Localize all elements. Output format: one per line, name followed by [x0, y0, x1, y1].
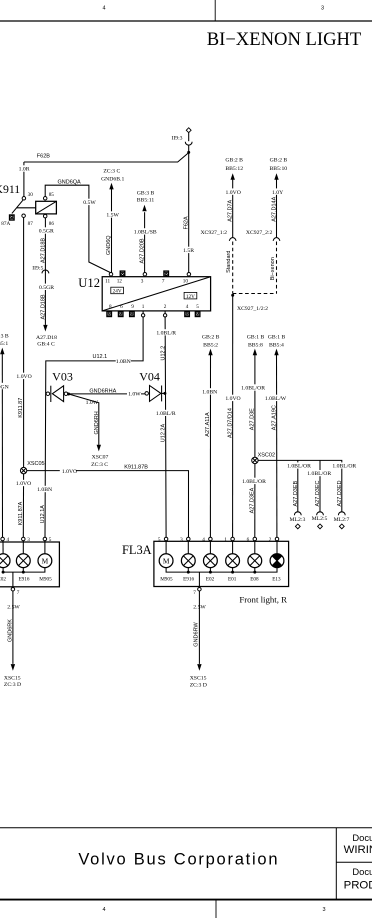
svg-text:2: 2	[269, 537, 272, 543]
pin 85	[43, 197, 47, 201]
wire U12.1 from U12:1	[45, 317, 143, 537]
svg-text:1.0W: 1.0W	[86, 400, 99, 406]
motor M905 right	[165, 541, 167, 554]
pin 6 stub	[118, 312, 123, 317]
svg-text:0.5GR: 0.5GR	[39, 285, 54, 291]
wire K911.87B to FL3A:3	[27, 471, 189, 538]
svg-text:1.0VO: 1.0VO	[62, 469, 77, 475]
svg-text:4: 4	[102, 6, 105, 12]
svg-text:GB:2 B: GB:2 B	[270, 158, 288, 164]
FL3 pin 7	[11, 587, 15, 591]
svg-text:ZC:3 C: ZC:3 C	[103, 168, 120, 174]
svg-text:GND6RK: GND6RK	[7, 619, 13, 642]
svg-text:F62A: F62A	[184, 216, 190, 229]
wire K911.87 down	[23, 217, 25, 467]
svg-text:87A: 87A	[1, 221, 10, 227]
svg-text:1.0VO: 1.0VO	[225, 396, 240, 402]
svg-text:12: 12	[117, 278, 123, 284]
svg-text:1.0BL/OR: 1.0BL/OR	[332, 464, 356, 470]
svg-text:K911.87A: K911.87A	[18, 501, 24, 525]
pin 87	[22, 214, 26, 218]
svg-text:GND6RHA: GND6RHA	[89, 388, 116, 394]
svg-text:GB:3 B: GB:3 B	[137, 191, 155, 197]
wire A27.A19C	[274, 349, 278, 356]
svg-text:XSC15: XSC15	[4, 675, 21, 681]
svg-text:GB:1 B: GB:1 B	[247, 335, 265, 341]
svg-text:BB5:4: BB5:4	[269, 342, 284, 348]
svg-text:1.0BL/R: 1.0BL/R	[156, 411, 176, 417]
FL3A pin 3	[187, 537, 191, 541]
svg-text:1.5R: 1.5R	[183, 248, 194, 254]
svg-text:1.0BL/W: 1.0BL/W	[265, 396, 287, 402]
node XC927_1/2:2	[231, 294, 234, 297]
wire A27.D3ED	[333, 462, 356, 468]
svg-text:3: 3	[180, 537, 183, 543]
wire A27.D3EC	[319, 460, 321, 511]
lamp E916 left	[22, 541, 24, 554]
svg-text:A27.D3EC: A27.D3EC	[315, 480, 321, 506]
svg-text:XSC15: XSC15	[190, 676, 207, 682]
svg-text:1.0VO: 1.0VO	[226, 190, 241, 196]
svg-text:GB:3 B: GB:3 B	[0, 333, 9, 339]
FL3 pin 3	[22, 537, 26, 541]
svg-text:3: 3	[322, 907, 325, 913]
sheet zone tick bottom	[215, 900, 217, 918]
wire A27.D14A	[274, 173, 278, 180]
svg-text:1.5W: 1.5W	[106, 213, 119, 219]
svg-text:U12.1A: U12.1A	[40, 505, 46, 524]
svg-text:ZC:3 C: ZC:3 C	[91, 462, 108, 468]
FL3A pin 4	[209, 537, 213, 541]
svg-text:GB:4 C: GB:4 C	[37, 342, 55, 348]
connector variant box dashed	[232, 242, 234, 294]
splice XSC05	[20, 467, 26, 473]
svg-text:9: 9	[131, 304, 134, 310]
svg-text:85: 85	[49, 192, 55, 198]
wire A27.D7/D14 down to FL3A:1	[232, 295, 234, 537]
svg-text:24V: 24V	[113, 289, 122, 295]
svg-text:K911: K911	[0, 182, 20, 196]
svg-text:2.5W: 2.5W	[7, 604, 20, 610]
svg-text:3: 3	[27, 537, 30, 543]
FL3A pin 2	[275, 537, 279, 541]
svg-text:Document: Document	[352, 866, 372, 877]
svg-text:A27.D3EB: A27.D3EB	[293, 480, 299, 506]
svg-text:1.0GN: 1.0GN	[0, 385, 9, 391]
wire GND6QA from 85 to U12:11	[45, 185, 111, 273]
svg-text:E13: E13	[272, 577, 281, 583]
svg-text:12V: 12V	[186, 294, 195, 300]
title block frame	[0, 827, 372, 829]
pin 5 stub	[195, 312, 200, 317]
pin 87A stub	[10, 215, 15, 220]
svg-text:4: 4	[186, 304, 189, 310]
lamp E02 left	[2, 541, 4, 554]
svg-text:BB5:2: BB5:2	[203, 342, 218, 348]
svg-text:GND6QA: GND6QA	[58, 180, 82, 186]
svg-text:1.0BL/R: 1.0BL/R	[156, 331, 176, 337]
lamp E02 right	[209, 541, 211, 554]
svg-text:A27.D14A: A27.D14A	[271, 196, 277, 221]
svg-text:U12.1: U12.1	[93, 354, 108, 360]
wire K911.87A below splice	[22, 474, 24, 538]
wire A27.A11A	[208, 349, 212, 356]
FL3A pin 1	[231, 537, 235, 541]
svg-text:ML2:3: ML2:3	[289, 517, 305, 523]
wire XSC02 branch to ML2	[258, 460, 342, 511]
svg-text:II9:5: II9:5	[32, 266, 43, 272]
wire GND6RHA	[69, 393, 146, 395]
svg-text:Volvo Bus Corporation: Volvo Bus Corporation	[78, 851, 279, 869]
svg-text:4: 4	[202, 537, 205, 543]
wire GND6RW	[198, 591, 200, 664]
wire A27.D20B to U12:3	[144, 212, 146, 272]
wire GND6RH branch	[69, 394, 99, 445]
FL3A pin 6	[253, 537, 256, 541]
svg-text:6: 6	[247, 537, 250, 543]
wire A27.D18B from 86	[44, 218, 46, 325]
svg-text:0.5W: 0.5W	[83, 200, 96, 206]
svg-text:0.5GR: 0.5GR	[39, 229, 54, 235]
24V box	[111, 287, 124, 294]
svg-text:Front light, R: Front light, R	[239, 595, 287, 605]
svg-text:M905: M905	[160, 577, 173, 583]
svg-text:F62B: F62B	[37, 154, 50, 160]
svg-text:XSC05: XSC05	[27, 461, 44, 467]
svg-text:A27.D3E: A27.D3E	[250, 408, 256, 430]
svg-text:4: 4	[102, 907, 105, 913]
pin 1	[142, 311, 144, 314]
svg-text:K911.87B: K911.87B	[124, 464, 148, 470]
pin 9 stub	[130, 312, 135, 317]
junction V03 anode	[67, 393, 70, 396]
svg-text:7: 7	[162, 278, 165, 284]
lamp E01	[232, 541, 234, 554]
svg-text:1: 1	[142, 304, 145, 310]
svg-text:E916: E916	[183, 577, 194, 583]
svg-text:Bi−xenon: Bi−xenon	[270, 257, 276, 280]
wire GND6Q from U12:11 up	[111, 189, 113, 273]
svg-text:A27.D20B: A27.D20B	[140, 238, 146, 263]
svg-text:1.0BL/OR: 1.0BL/OR	[307, 471, 331, 477]
svg-text:XSC02: XSC02	[258, 452, 275, 458]
svg-text:1.0VO: 1.0VO	[16, 374, 31, 380]
svg-text:1: 1	[224, 537, 227, 543]
svg-text:8: 8	[109, 304, 112, 310]
pin 2	[164, 311, 166, 314]
svg-text:1.0BL/SB: 1.0BL/SB	[134, 230, 157, 236]
pin 12 stub	[120, 271, 125, 276]
svg-text:BB5:1: BB5:1	[0, 341, 8, 347]
svg-text:U12.2: U12.2	[160, 346, 166, 361]
svg-text:2: 2	[164, 304, 167, 310]
sheet zone tick top	[214, 0, 216, 21]
svg-text:1.0BN: 1.0BN	[202, 390, 217, 396]
svg-text:1.0W: 1.0W	[128, 392, 141, 398]
svg-text:A27.D18B: A27.D18B	[41, 238, 47, 263]
svg-text:BB5:8: BB5:8	[248, 342, 263, 348]
svg-text:U12.2A: U12.2A	[161, 424, 167, 443]
svg-text:GB:1 B: GB:1 B	[268, 335, 286, 341]
svg-text:1.0VO: 1.0VO	[16, 481, 31, 487]
svg-text:1.0R: 1.0R	[19, 167, 30, 173]
sheet top border	[0, 20, 372, 22]
svg-text:A27.D7A: A27.D7A	[228, 199, 234, 221]
front light L box	[0, 542, 59, 587]
svg-text:3: 3	[141, 278, 144, 284]
svg-text:5: 5	[49, 537, 52, 543]
ground bus left	[3, 568, 45, 573]
relay switch armature	[12, 200, 23, 213]
pin 8 stub	[107, 312, 112, 317]
pin 11	[109, 272, 113, 276]
svg-text:7: 7	[193, 590, 196, 596]
svg-text:BB5:10: BB5:10	[269, 166, 287, 172]
svg-text:A27.D18B: A27.D18B	[41, 294, 47, 319]
svg-text:Standard: Standard	[226, 251, 232, 273]
junction V04 cathode	[163, 392, 166, 395]
junction F62	[187, 151, 190, 154]
wire F62B	[24, 153, 189, 162]
svg-text:A27.A11A: A27.A11A	[205, 412, 211, 437]
wire 1.0R to relay 30	[23, 162, 25, 197]
pin 86	[43, 214, 47, 218]
xenon lamp E13	[276, 541, 278, 554]
node II9:5	[42, 270, 49, 273]
svg-text:5: 5	[158, 537, 161, 543]
svg-text:1.0BL/OR: 1.0BL/OR	[242, 479, 266, 485]
svg-text:GB:2 B: GB:2 B	[202, 335, 220, 341]
ground bus right	[166, 568, 277, 573]
svg-text:GND6Q: GND6Q	[106, 235, 112, 255]
svg-text:ZC:3 D: ZC:3 D	[190, 683, 207, 689]
svg-text:1.0BL/OR: 1.0BL/OR	[287, 464, 311, 470]
motor M905 left	[44, 541, 46, 554]
svg-text:1.0BN: 1.0BN	[37, 487, 52, 493]
svg-text:GND6RW: GND6RW	[194, 622, 200, 647]
svg-text:XSC07: XSC07	[92, 454, 109, 460]
svg-text:5: 5	[196, 304, 199, 310]
svg-text:A27.D7/D14: A27.D7/D14	[228, 408, 234, 438]
svg-text:BB5:11: BB5:11	[137, 197, 155, 203]
svg-text:86: 86	[49, 221, 55, 227]
wire A27.D3EB	[297, 460, 299, 511]
svg-text:A27.D3EA: A27.D3EA	[250, 487, 256, 513]
lamp E08	[254, 541, 256, 554]
svg-text:E01: E01	[228, 577, 237, 583]
node II9:3	[186, 128, 191, 133]
wire A27.D7A	[231, 173, 235, 180]
svg-text:BB5:12: BB5:12	[225, 166, 243, 172]
pin 30	[22, 197, 26, 201]
wire A27.D3E	[253, 349, 257, 356]
svg-text:A27.D3ED: A27.D3ED	[337, 480, 343, 506]
svg-text:1.0Y: 1.0Y	[272, 190, 283, 196]
svg-text:ML2:5: ML2:5	[312, 516, 328, 522]
wire F62A to U12:10	[188, 152, 190, 272]
svg-text:FL3A: FL3A	[122, 543, 152, 557]
svg-text:A27.D18: A27.D18	[36, 335, 57, 341]
svg-text:11: 11	[105, 278, 110, 284]
svg-text:GND6B.1: GND6B.1	[101, 176, 124, 182]
svg-text:K911.87: K911.87	[18, 398, 24, 418]
svg-text:XC927_2:2: XC927_2:2	[246, 230, 273, 236]
svg-text:10: 10	[183, 278, 189, 284]
svg-text:3: 3	[321, 6, 324, 12]
svg-text:GND6RH: GND6RH	[94, 411, 100, 434]
svg-text:E916: E916	[19, 577, 30, 583]
svg-text:E08: E08	[250, 577, 259, 583]
relay coil K911	[36, 201, 57, 214]
svg-text:ZC:3 D: ZC:3 D	[4, 682, 21, 688]
FL3A pin 5	[164, 537, 168, 541]
svg-text:WIRING D: WIRING D	[344, 844, 372, 856]
svg-text:V03: V03	[52, 370, 73, 384]
svg-text:30: 30	[28, 192, 34, 198]
svg-text:E02: E02	[206, 577, 215, 583]
svg-text:1.0BL/OR: 1.0BL/OR	[241, 386, 265, 392]
pin 4 stub	[185, 312, 190, 317]
svg-text:E02: E02	[0, 577, 6, 583]
svg-text:BI−XENON LIGHT: BI−XENON LIGHT	[207, 29, 362, 50]
wire GND6RK	[12, 591, 14, 664]
pin 10	[187, 272, 191, 276]
svg-text:87: 87	[28, 221, 34, 227]
svg-text:GB:2 B: GB:2 B	[225, 158, 243, 164]
svg-text:V04: V04	[139, 370, 160, 384]
wire A27.D3EA below splice	[254, 464, 256, 538]
svg-text:ML2:7: ML2:7	[334, 517, 350, 523]
svg-text:2.5W: 2.5W	[193, 605, 206, 611]
svg-text:Document: Document	[352, 832, 372, 843]
lamp E916 right	[187, 541, 189, 554]
svg-text:II9:3: II9:3	[171, 136, 182, 142]
svg-text:PRODUCT: PRODUCT	[344, 880, 372, 892]
svg-text:7: 7	[17, 590, 20, 596]
svg-text:M905: M905	[39, 577, 52, 583]
terminal A27.D18 GB:4 C	[43, 325, 47, 332]
12V box	[184, 292, 197, 299]
pin 7 stub	[164, 271, 169, 276]
wire U12.2 from U12:2	[165, 317, 166, 537]
FL3 pin 5	[43, 537, 47, 541]
FL3 pin 4	[1, 537, 5, 541]
svg-text:4: 4	[7, 537, 10, 543]
FL3A pin 7	[198, 587, 202, 591]
svg-text:1.0BN: 1.0BN	[116, 359, 131, 365]
svg-text:6: 6	[120, 304, 123, 310]
svg-text:XC927_1/2:2: XC927_1/2:2	[237, 306, 268, 312]
svg-text:U12: U12	[78, 276, 100, 290]
svg-text:XC927_1:2: XC927_1:2	[200, 230, 227, 236]
svg-text:A27.A19C: A27.A19C	[271, 405, 277, 430]
pin 3	[143, 272, 147, 276]
splice XSC02	[252, 457, 258, 463]
